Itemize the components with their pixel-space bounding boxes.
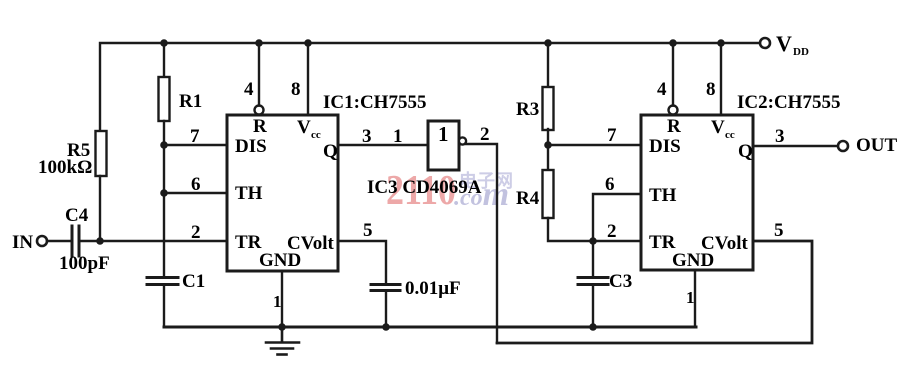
svg-text:R3: R3	[516, 99, 539, 120]
node IC1 pin4 top	[255, 39, 263, 47]
wire IC1 pin6	[164, 192, 227, 194]
node pin7 junction	[160, 141, 168, 149]
svg-text:GND: GND	[259, 250, 301, 271]
wire IC1 pin7	[164, 144, 227, 146]
svg-text:GND: GND	[672, 250, 714, 271]
wire R4 bottom to IC2 TR pin2	[548, 218, 641, 241]
wire IC2 pin6 TH	[593, 194, 641, 241]
svg-text:V: V	[297, 117, 311, 138]
node R3 top	[544, 39, 552, 47]
wire R1 top	[163, 43, 165, 77]
wire C3 top	[592, 241, 594, 277]
svg-text:TR: TR	[235, 232, 262, 253]
svg-text:IC2:CH7555: IC2:CH7555	[737, 92, 840, 113]
svg-text:DIS: DIS	[235, 136, 267, 157]
svg-text:C4: C4	[65, 205, 89, 226]
resistor R3	[543, 87, 554, 130]
svg-text:V: V	[711, 117, 725, 138]
svg-text:DIS: DIS	[649, 136, 681, 157]
node R1 top	[160, 39, 168, 47]
bubble inverter output	[459, 137, 466, 144]
node C3 on rail	[589, 323, 597, 331]
node IC1 pin8 top	[304, 39, 312, 47]
svg-text:TH: TH	[235, 183, 263, 204]
wire VDD top rail	[100, 43, 760, 131]
svg-text:5: 5	[774, 220, 784, 241]
wire IC1 pin8	[307, 43, 309, 115]
wire IC1 pin3 Q to inverter input	[338, 144, 428, 146]
node IC2 pin8 top	[717, 39, 725, 47]
resistor R1	[159, 77, 170, 121]
wire R1 bottom column to C1	[163, 121, 165, 277]
svg-text:IN: IN	[12, 232, 33, 253]
svg-text:R4: R4	[516, 188, 540, 209]
inverter IC3 CD4069A	[428, 121, 459, 170]
node IC1 gnd on rail	[278, 323, 286, 331]
node C3 TH TR junction	[589, 237, 597, 245]
wire C3 to ground rail	[592, 285, 594, 327]
svg-text:4: 4	[244, 79, 254, 100]
svg-text:C1: C1	[182, 271, 205, 292]
svg-text:2: 2	[191, 222, 201, 243]
svg-text:6: 6	[605, 174, 615, 195]
op-amp U1 IC1 CH7555 box	[227, 115, 338, 271]
svg-text:cc: cc	[311, 129, 321, 141]
bubble IC2 R pin	[669, 106, 678, 115]
node IC2 pin4 top	[669, 39, 677, 47]
terminal OUT	[838, 141, 848, 151]
capacitor C4	[72, 226, 79, 256]
svg-text:V: V	[776, 31, 792, 56]
svg-text:2: 2	[607, 221, 617, 242]
svg-text:2: 2	[480, 124, 490, 145]
capacitor C1	[147, 278, 178, 285]
wire R3 top	[547, 43, 549, 87]
svg-text:1: 1	[686, 288, 695, 307]
node 0.01uF on rail	[382, 323, 390, 331]
node pin6 junction	[160, 189, 168, 197]
svg-text:100pF: 100pF	[59, 253, 110, 274]
svg-text:5: 5	[363, 220, 373, 241]
svg-text:Q: Q	[323, 141, 338, 162]
wire R5 bottom	[99, 176, 101, 241]
svg-text:R: R	[253, 116, 267, 137]
svg-text:0.01μF: 0.01μF	[405, 278, 461, 299]
wire ground rail	[164, 326, 696, 329]
op-amp U2 IC2 CH7555 box	[641, 115, 753, 270]
svg-text:7: 7	[607, 125, 617, 146]
svg-text:OUT: OUT	[856, 135, 898, 156]
watermark 2110.com 电子网	[386, 168, 513, 214]
svg-text:R1: R1	[179, 91, 202, 112]
svg-text:1: 1	[438, 122, 449, 146]
svg-text:R: R	[667, 116, 681, 137]
resistor R4	[543, 170, 554, 218]
node C4-R5-TR junction	[96, 237, 104, 245]
svg-text:6: 6	[191, 174, 201, 195]
wire IC2 pin4	[672, 43, 674, 106]
svg-text:C3: C3	[609, 271, 632, 292]
wire IC2 GND pin1	[694, 270, 696, 327]
svg-text:IC1:CH7555: IC1:CH7555	[323, 92, 426, 113]
svg-text:8: 8	[706, 79, 716, 100]
node R3 R4 pin7 junction	[544, 141, 552, 149]
svg-text:1: 1	[393, 126, 403, 147]
wire IC2 pin3 Q to OUT	[753, 145, 838, 147]
wire IC1 pin4	[258, 43, 260, 106]
svg-text:DD: DD	[793, 46, 809, 58]
svg-text:1: 1	[273, 292, 282, 311]
svg-text:cc: cc	[725, 129, 735, 141]
wire R4 top	[547, 145, 549, 170]
ground	[266, 327, 299, 355]
capacitor 0.01uF	[371, 285, 400, 291]
wire IC1 pin5 CVolt	[338, 241, 386, 284]
wire C4 to IC1 TR pin2	[81, 240, 227, 242]
svg-text:7: 7	[190, 126, 200, 147]
svg-text:8: 8	[291, 79, 301, 100]
wire IC2 pin5 CVolt feedback	[497, 241, 812, 343]
svg-text:Q: Q	[738, 141, 753, 162]
bubble IC1 R pin	[255, 106, 264, 115]
wire IC2 pin7	[548, 144, 641, 146]
wire C1 to ground rail	[163, 285, 165, 327]
capacitor C3	[578, 278, 608, 285]
wire IC1 GND pin1	[281, 271, 283, 327]
svg-text:4: 4	[657, 79, 667, 100]
wire R3 bottom	[547, 129, 549, 145]
wire inverter output pin2 down	[466, 144, 497, 343]
svg-text:3: 3	[362, 126, 372, 147]
wire IC2 pin8	[720, 43, 722, 115]
terminal VDD	[760, 38, 770, 48]
wire IN to C4	[47, 240, 70, 242]
svg-text:IC3 CD4069A: IC3 CD4069A	[367, 177, 482, 198]
svg-text:TH: TH	[649, 185, 677, 206]
resistor R5	[96, 131, 107, 176]
terminal IN	[37, 236, 47, 246]
wire 0.01uF to ground rail	[385, 291, 387, 327]
svg-text:3: 3	[775, 126, 785, 147]
svg-text:100kΩ: 100kΩ	[38, 157, 92, 178]
